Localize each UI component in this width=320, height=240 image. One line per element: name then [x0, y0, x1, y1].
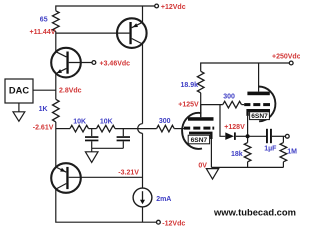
wire Q1 emitter stub to +12V rail — [142, 6, 144, 22]
wire +12V top rail — [56, 6, 155, 11]
DAC box — [5, 79, 33, 103]
svg-text:www.tubecad.com: www.tubecad.com — [213, 207, 296, 218]
wire +128V node to 1uF cap — [248, 135, 266, 137]
wire tube2 plate stem to +250V rail — [258, 63, 260, 92]
transistor Q1 PNP top — [117, 18, 147, 48]
svg-text:+11.44V: +11.44V — [30, 29, 56, 36]
wire current source to bottom rail — [142, 207, 144, 222]
svg-text:18.9k: 18.9k — [180, 82, 198, 89]
svg-text:300: 300 — [223, 94, 235, 101]
svg-text:1M: 1M — [287, 149, 297, 156]
capacitor C1 divider left — [91, 129, 93, 137]
svg-text:-3.21V: -3.21V — [118, 169, 139, 176]
svg-text:DAC: DAC — [9, 86, 29, 96]
resistor 10K second — [97, 125, 116, 132]
ground divider caps — [91, 148, 93, 152]
wire tube2 cathode lead down to +128V node — [247, 116, 249, 137]
capacitor 1uF plates — [266, 129, 268, 143]
resistor 300 grid stopper tube2 — [223, 101, 242, 108]
svg-text:1K: 1K — [39, 106, 48, 113]
wire diode cathode to +128V node — [236, 135, 248, 137]
svg-text:0V: 0V — [198, 163, 207, 170]
wire DAC output to left rail node 2.8Vdc — [33, 89, 56, 91]
wire 300 to tube1 grid — [174, 128, 184, 130]
wire divider output to 300 grid stopper — [115, 128, 157, 130]
wire tube1 cathode lead down to 0V rail — [210, 139, 212, 167]
svg-text:-2.61V: -2.61V — [33, 125, 54, 132]
svg-text:+12Vdc: +12Vdc — [161, 4, 186, 11]
svg-text:6SN7: 6SN7 — [191, 137, 208, 144]
transistor Q3 PNP bottom — [51, 163, 81, 193]
resistor 1M — [282, 136, 284, 142]
wire +250V rail — [201, 63, 290, 71]
triode U1 6SN7 lower left — [182, 105, 214, 149]
triode U2 6SN7 upper right — [244, 86, 275, 121]
svg-text:+250Vdc: +250Vdc — [272, 54, 300, 61]
resistor 10K first — [70, 125, 89, 132]
svg-text:-12Vdc: -12Vdc — [162, 220, 185, 227]
svg-text:2mA: 2mA — [156, 196, 171, 203]
svg-text:+128V: +128V — [224, 124, 245, 131]
wire Q3 base to -3.21V rail junction — [69, 176, 143, 178]
svg-text:+3.46Vdc: +3.46Vdc — [100, 61, 131, 68]
svg-text:1µF: 1µF — [264, 145, 277, 152]
wire left rail R65 to Q2 collector — [55, 31, 57, 51]
diode 1N series — [225, 132, 236, 140]
svg-text:65: 65 — [40, 16, 48, 23]
wire 0V bottom rail — [211, 166, 283, 168]
resistor 300 grid stopper tube1 — [157, 125, 175, 132]
wire 1uF to output terminal — [272, 135, 286, 137]
terminal +3.46Vdc — [92, 61, 96, 65]
svg-text:300: 300 — [159, 118, 171, 125]
terminal output right — [285, 134, 289, 138]
wire vertical rail hop to current source — [142, 133, 144, 188]
current source 2mA — [133, 188, 152, 207]
svg-text:10K: 10K — [100, 119, 113, 126]
wire cap bottoms join to ground — [92, 147, 124, 149]
capacitor C2 divider right — [122, 129, 124, 137]
transistor Q2 NPN middle — [51, 48, 92, 78]
wire -2.61V node to 10K divider — [56, 128, 70, 130]
wire hop over divider line — [138, 124, 143, 134]
svg-text:+125V: +125V — [178, 101, 199, 108]
ground DAC — [13, 103, 25, 121]
resistor 18.9k — [197, 71, 204, 93]
wire between 10K resistors — [89, 128, 97, 130]
wire Q1 base line from left rail — [56, 32, 130, 34]
resistor 1K — [53, 99, 60, 122]
wire +125V node to 300 grid stopper tube2 — [201, 104, 223, 106]
terminal +12Vdc — [155, 4, 159, 8]
terminal +250Vdc — [289, 61, 293, 65]
terminal -12Vdc — [157, 220, 161, 224]
svg-text:2.8Vdc: 2.8Vdc — [59, 88, 82, 95]
wire +125V node down to diode — [220, 105, 225, 137]
svg-text:6SN7: 6SN7 — [251, 113, 268, 120]
node +128V junction dot — [246, 134, 250, 138]
resistor 65 — [53, 11, 60, 32]
wire 18.9k to +125V node and tube1 plate stem — [200, 93, 202, 117]
svg-text:18k: 18k — [231, 151, 243, 158]
resistor 18k — [247, 136, 249, 142]
wire 300 to tube2 grid — [242, 104, 245, 106]
wire main vertical rail Q1 collector down to hop — [142, 44, 144, 124]
wire left rail Q2 emitter to 1K top — [55, 74, 57, 100]
wire left rail Q3 emitter to bottom rail — [56, 189, 157, 222]
svg-text:10K: 10K — [73, 119, 86, 126]
ground 0V rail — [206, 169, 218, 180]
wire left rail 1K bottom through -2.61V node to Q3 collector — [55, 122, 57, 167]
